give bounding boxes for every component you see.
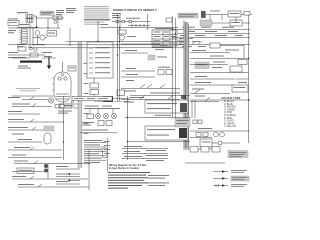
wire drop: [69, 28, 71, 45]
wire drops to lamps: [97, 109, 99, 114]
wire: [112, 98, 130, 100]
fuel pump cluster: [198, 128, 212, 129]
wire drop: [97, 21, 99, 42]
svg-text:N. BROWN: N. BROWN: [224, 107, 236, 109]
legend arrow 2: [213, 178, 228, 180]
label fuse block: [8, 30, 16, 31]
wiper motor unit: [26, 15, 33, 19]
capsule ticks: [53, 77, 55, 79]
wire: [33, 15, 37, 17]
svg-text:R. RED: R. RED: [224, 118, 232, 120]
legend arrow 1: [213, 171, 228, 173]
label horn: [17, 44, 25, 45]
wire: [12, 57, 30, 59]
note annotations right: [148, 175, 169, 176]
svg-text:S. SLATE: S. SLATE: [224, 120, 234, 123]
wire drops from top wire: [209, 15, 211, 21]
bus wire: [172, 29, 250, 31]
top bus wire: [190, 99, 250, 101]
label: [100, 24, 108, 25]
panel row 4: [89, 62, 93, 64]
capsule feed wire: [62, 62, 64, 72]
labels under panel: [85, 106, 99, 107]
switch cluster: [180, 41, 184, 44]
wire: [212, 22, 230, 24]
relay plate: [195, 62, 209, 69]
svg-text:P. PURPLE: P. PURPLE: [224, 115, 236, 117]
battery label: [18, 66, 28, 67]
wire: [93, 78, 95, 83]
wire: [127, 141, 190, 143]
junction ticks on trunk: [74, 99, 78, 101]
rows right of list: [124, 146, 142, 147]
label column: [56, 10, 64, 11]
horn circle: [40, 35, 45, 40]
starter box: [230, 20, 242, 26]
right edge wire: [248, 15, 250, 143]
wire with inline connectors: [112, 21, 150, 23]
fuse column labels: [104, 140, 110, 143]
wire horizontals mid right of panel: [121, 43, 160, 45]
extra row label: [225, 50, 239, 51]
svg-text:W. WHITE: W. WHITE: [224, 123, 235, 125]
wire: [33, 37, 40, 39]
harness wires left pair: [172, 48, 174, 118]
label: [130, 97, 144, 98]
switch boxes pair: [158, 67, 170, 68]
switch row 2b: [8, 111, 22, 112]
svg-text:G. GREEN: G. GREEN: [224, 109, 236, 111]
key list text block: [84, 6, 109, 7]
note text small: [66, 8, 76, 9]
mini rows right: [56, 166, 68, 167]
relay unit A: [150, 93, 180, 94]
dark module: [103, 96, 113, 102]
harness trunk band: [78, 42, 82, 168]
alternator label plate: [178, 13, 198, 18]
fuse column wire: [107, 138, 109, 172]
panel row 6: [89, 72, 93, 74]
mini rows column: [84, 140, 102, 141]
switch row 4: [8, 127, 28, 128]
wire: [190, 137, 212, 139]
wire: [32, 28, 34, 46]
long bus wire: [100, 27, 178, 29]
label: [58, 111, 72, 112]
junction box: [18, 47, 26, 51]
switch box: [30, 53, 38, 57]
junction boxes row: [190, 147, 198, 153]
heater capsule: [44, 133, 51, 144]
wire: [17, 26, 38, 28]
panel row 5: [89, 67, 93, 69]
flasher unit: [53, 16, 57, 19]
instrument panel rectangle: [87, 42, 113, 78]
panel row 2: [89, 52, 93, 54]
wire: [93, 95, 95, 102]
svg-text:COLOUR CODE: COLOUR CODE: [221, 96, 241, 100]
terminal strip box: [72, 97, 112, 101]
fuse box small: [210, 43, 220, 48]
harness wire: [63, 96, 65, 160]
small capsule component: [103, 148, 108, 158]
switch row 2: [12, 104, 30, 105]
wire: [12, 95, 54, 97]
switch plate: [148, 55, 155, 60]
right harness bundle: [184, 22, 189, 148]
trunk side labels: [84, 62, 89, 65]
bottom row 4: [18, 184, 34, 185]
main harness vertical pair: [117, 14, 119, 102]
wire: [212, 142, 240, 144]
wire: [185, 162, 225, 164]
harness wires vertical: [191, 100, 193, 118]
bottom row 2 label box: [17, 168, 34, 174]
label windscreen wiper motor: [17, 12, 28, 13]
wire: [45, 37, 47, 39]
wire drop: [243, 46, 245, 59]
battery bar (thick): [20, 61, 42, 63]
label wiper switch: [19, 24, 29, 25]
lamp circle: [48, 98, 53, 103]
legend arrow 3: [213, 185, 228, 187]
connector circles: [44, 164, 48, 168]
pump box: [200, 139, 212, 147]
connector pair: [55, 105, 59, 108]
extra label rows: [213, 62, 225, 63]
labels: [82, 122, 94, 123]
bus wire long: [66, 41, 184, 43]
panel lamp 2: [104, 114, 109, 119]
svg-text:B. BLACK: B. BLACK: [224, 100, 235, 103]
vertical connector wire: [88, 150, 90, 190]
wire row: [82, 130, 108, 131]
header plate label: [40, 11, 54, 15]
connector block: [201, 11, 206, 18]
left arrows rows: [70, 173, 80, 175]
switch row 1: [8, 97, 20, 98]
bundle connector: [181, 95, 186, 99]
notes list: [108, 172, 150, 173]
label relay: [33, 44, 45, 45]
switch row 7: [12, 155, 26, 156]
small box: [87, 114, 94, 119]
switch row 4b: [12, 134, 24, 135]
control box: [47, 31, 57, 37]
gearbox switch box: [68, 66, 76, 71]
note plate: [228, 151, 248, 158]
label above wire: [126, 18, 140, 19]
lighting switch small box: [166, 18, 172, 22]
solenoid label plate: [59, 104, 72, 109]
lamp unit box: [238, 60, 247, 65]
subtitle: [112, 13, 121, 14]
wire: [125, 117, 190, 119]
wire: [35, 17, 64, 19]
label rows right of harness: [192, 50, 206, 51]
bus wire long: [28, 47, 184, 49]
bus wire: [178, 33, 250, 35]
wire: [36, 16, 38, 28]
pump connectors: [196, 133, 201, 137]
wire: [241, 14, 252, 16]
distributor label: [127, 36, 136, 37]
heater label plate: [44, 126, 54, 131]
relay plate: [175, 118, 190, 127]
long label row: [84, 108, 120, 109]
wire with components: [128, 25, 150, 27]
panel lamp 3: [112, 114, 117, 119]
lamp boxes: [98, 121, 104, 126]
instrument label: [16, 88, 40, 89]
svg-text:MODELS PRIOR TO SERIES 2: MODELS PRIOR TO SERIES 2: [113, 8, 157, 12]
starter solenoid plate: [200, 20, 212, 26]
bus wire long: [8, 44, 184, 46]
switch row: [195, 90, 200, 94]
wire: [119, 14, 121, 30]
switch row 5: [18, 139, 32, 140]
panel lamp 1: [96, 114, 101, 119]
wire: [190, 72, 249, 74]
label row 2: [8, 57, 26, 58]
svg-text:Y. YELLOW: Y. YELLOW: [224, 126, 237, 128]
wire: [29, 28, 31, 50]
panel row 1: [89, 47, 93, 49]
wire bus: [8, 27, 60, 29]
wire: [206, 14, 228, 16]
wire rows: [126, 68, 136, 69]
wire: [8, 54, 45, 56]
small junction circles: [30, 47, 33, 50]
svg-text:U. BLUE: U. BLUE: [224, 104, 233, 106]
fuse block terminals: [20, 29, 22, 31]
solenoid labels: [42, 52, 52, 53]
wire: [42, 57, 56, 59]
label row: [8, 52, 18, 53]
wire: [242, 22, 250, 24]
wire: [220, 45, 244, 47]
bottom row 1: [14, 161, 28, 162]
panel row 3: [89, 57, 93, 59]
wire drop: [47, 164, 49, 180]
wire: [94, 100, 103, 102]
relay unit B: [145, 126, 188, 140]
label rows: [195, 76, 207, 77]
stacked connector boxes: [90, 83, 99, 88]
wire: [29, 22, 31, 27]
gauge unit on harness: [117, 90, 125, 96]
horn relay circle: [35, 31, 40, 36]
terminal: [244, 12, 250, 16]
wire: [147, 14, 149, 30]
bus wire: [172, 37, 250, 39]
label above top wire: [210, 10, 220, 13]
control box: [232, 85, 248, 92]
switch row 3: [8, 119, 24, 120]
bottom row 3: [12, 176, 26, 177]
ignition coil: [118, 30, 126, 34]
harness wire: [172, 16, 174, 48]
ignition switch detail box: [155, 28, 173, 29]
fuse block: [22, 29, 28, 44]
extra switch rows: [160, 85, 165, 89]
left label box: [8, 19, 18, 20]
harness wire: [175, 18, 177, 48]
switch cluster extra marks: [179, 40, 182, 42]
ground arrow: [48, 57, 50, 66]
svg-text:K. PINK: K. PINK: [224, 112, 233, 114]
starter motor capsule: [54, 72, 71, 102]
wire: [57, 19, 59, 28]
wire: [47, 18, 49, 28]
wire: [37, 35, 39, 44]
small connectors: [193, 120, 197, 123]
svg-text:E-type (Series 1) models: E-type (Series 1) models: [109, 166, 140, 170]
switch symbols: [140, 85, 145, 89]
switch row 6: [14, 147, 30, 148]
fuse unit: [230, 66, 242, 72]
ammeter box: [228, 11, 241, 17]
